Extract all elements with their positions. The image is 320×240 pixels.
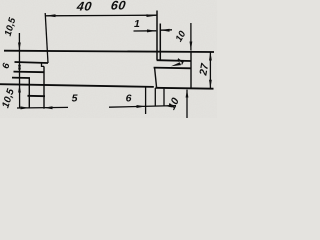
10 bottom-right up arrow [186,90,189,98]
right ledge 2 [154,67,191,70]
dim 40/60 line [45,14,157,17]
"1" left-pointing arrow [161,29,170,32]
middle inner bottom [0,84,154,87]
40/60 left arrow (points left) [45,14,55,17]
5 right-pointing arrow [21,106,30,109]
svg-text:6: 6 [126,92,132,104]
svg-text:1: 1 [134,18,140,30]
5 left-pointing arrow [44,106,53,109]
27 up arrow [209,52,212,61]
dim 10 top-right vertical [190,23,192,50]
right foot extensions down [154,88,156,106]
27 down arrow [209,80,212,89]
bottom dim line 6 [109,106,164,107]
6 bottom right-pointing arrow [137,105,146,108]
"1" right-pointing arrow [147,29,156,32]
dim 10 bottom-right vertical [186,90,188,118]
left ext vertical for 40/60 [45,13,48,63]
right foot inner slanted wall [155,68,157,88]
left ledge 2 [14,71,45,74]
6 up arrow [18,63,21,70]
dim carrier left vertical (10.5 / 6 / 10.5) [18,33,20,108]
right upper ledge [157,59,191,62]
bottom dim line 5 [17,106,68,109]
40/60 right arrow (points right) [147,14,157,17]
left upper ledge [15,62,49,63]
bottom 6 right tail [164,105,176,107]
10.5 bottom up arrow [18,85,21,93]
left step stub [42,63,45,66]
6 down arrow [18,65,21,72]
dim 27 vertical [209,52,211,89]
10 top-right down arrow [190,42,193,51]
dim "1" top: right tail [161,29,172,31]
right slot right wall [159,24,161,60]
right foot bottom + ext [155,87,213,90]
10.5 top-left down arrow [18,43,21,51]
right outer edge [190,51,192,89]
left foot outer wall [28,78,30,109]
right slot left wall / extension [156,11,158,60]
left inner wall [43,66,45,108]
dim "1" top: left part [134,30,157,32]
6 bottom left-pointing arrow [164,105,172,108]
top surface [4,51,214,52]
left ledge 3 [12,77,30,79]
svg-text:5: 5 [72,92,78,104]
svg-text:60: 60 [110,0,127,12]
"1" mid-right leader arrow [171,62,181,66]
left foot bottom [28,95,46,97]
svg-text:40: 40 [75,0,93,13]
